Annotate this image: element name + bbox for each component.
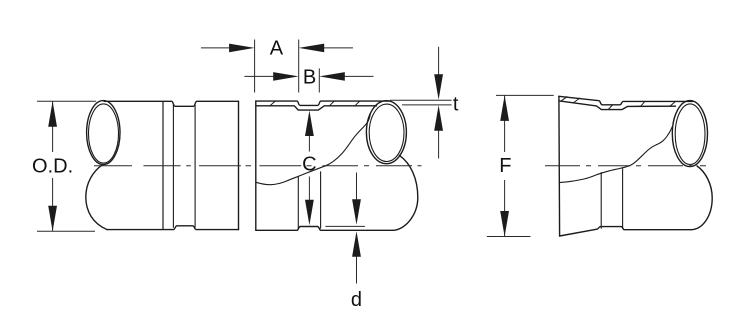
A arrowhead left [299, 44, 325, 53]
d arrowhead down [352, 199, 361, 225]
left pipe bottom outline with groove dip [107, 226, 239, 230]
right pipe groove lower right edge [622, 169, 624, 229]
A extension line 1 [254, 40, 256, 93]
middle pipe outer top line with groove [256, 101, 390, 105]
O.D. bottom extension line [37, 230, 95, 232]
right pipe inner top slanted line [559, 101, 675, 110]
F arrowhead up [500, 95, 509, 121]
right hatch 1 [561, 97, 567, 102]
O.D. dimension line upper [52, 101, 54, 152]
O.D. top extension line [37, 100, 96, 102]
F top extension line [496, 94, 554, 96]
centerline right view [545, 165, 706, 167]
O.D. dimension line lower [52, 178, 54, 231]
C dimension lower stem [308, 177, 310, 204]
right pipe outer top slanted line with groove [559, 96, 693, 105]
left pipe end outer ellipse [87, 101, 120, 165]
left pipe top outline with groove dip [104, 101, 239, 106]
d lower stem [356, 252, 358, 284]
middle pipe left end face [255, 101, 257, 230]
middle pipe lower-right break arc [393, 155, 418, 230]
F arrowhead down [500, 211, 509, 237]
middle pipe groove lower left edge [297, 177, 299, 228]
right hatch 3 (groove) [608, 105, 612, 110]
B extension line [318, 68, 320, 92]
svg-text:A: A [270, 38, 284, 60]
left pipe right end face [238, 101, 240, 229]
svg-text:O.D.: O.D. [32, 155, 73, 177]
O.D. arrowhead down [48, 206, 57, 232]
svg-text:t: t [453, 94, 459, 116]
left pipe seat boundary line [162, 102, 164, 230]
centerline left+middle views [94, 165, 422, 167]
B arrowhead left [319, 72, 345, 81]
middle pipe far-end inner ellipse [369, 104, 404, 161]
left pipe lower-left break arc [86, 165, 107, 230]
O.D. arrowhead up [48, 101, 57, 127]
A right leader [320, 47, 353, 49]
middle pipe inner top line [256, 106, 377, 110]
hatch 2 [329, 101, 334, 106]
right hatch 5 [670, 102, 676, 107]
svg-text:d: d [351, 289, 362, 311]
C dimension upper stem [308, 132, 310, 152]
C arrowhead up [305, 111, 314, 137]
B right leader [341, 75, 374, 77]
middle pipe far-end outer ellipse [366, 101, 406, 164]
left pipe end inner ellipse [89, 104, 119, 163]
left pipe groove right edge line [194, 105, 196, 228]
hatch 1 [270, 101, 275, 106]
B arrowhead right [273, 72, 299, 81]
d arrowhead up [352, 231, 361, 257]
right pipe left flared end face [558, 96, 561, 236]
hatch 3 [355, 101, 360, 106]
right hatch 4 [641, 101, 645, 106]
t arrowhead down [434, 74, 443, 100]
right pipe break (wavy) line [560, 127, 673, 183]
middle pipe groove lower right edge [320, 172, 322, 228]
A left leader [201, 47, 234, 49]
svg-text:B: B [303, 67, 316, 89]
C arrowhead down [305, 200, 314, 226]
middle pipe break (wavy) line [256, 114, 370, 185]
right pipe far-end outer ellipse [672, 101, 707, 167]
A arrowhead right [229, 44, 255, 53]
svg-text:C: C [302, 153, 316, 175]
d upper stem [356, 173, 358, 209]
t inner extension line [402, 104, 452, 106]
right pipe bottom outline: flare slant, groove, pipe bottom [560, 227, 691, 236]
t arrowhead up [434, 105, 443, 131]
t outer extension line [390, 99, 452, 101]
F bottom extension line [487, 236, 531, 238]
right pipe groove lower left edge [600, 173, 602, 229]
d extension line (groove floor) [325, 225, 365, 227]
left pipe groove left edge line [172, 105, 174, 228]
right hatch 2 [573, 98, 580, 103]
F dimension line lower [504, 180, 506, 237]
right pipe lower-right break arc [691, 166, 712, 230]
t lower stem [438, 127, 440, 159]
right pipe far-end inner ellipse [675, 104, 705, 165]
t upper stem [438, 47, 440, 78]
middle pipe bottom outline with groove [256, 227, 393, 231]
svg-text:F: F [499, 155, 511, 177]
A extension line 2 [298, 40, 300, 93]
B left leader [244, 75, 278, 77]
F dimension line upper [504, 95, 506, 152]
